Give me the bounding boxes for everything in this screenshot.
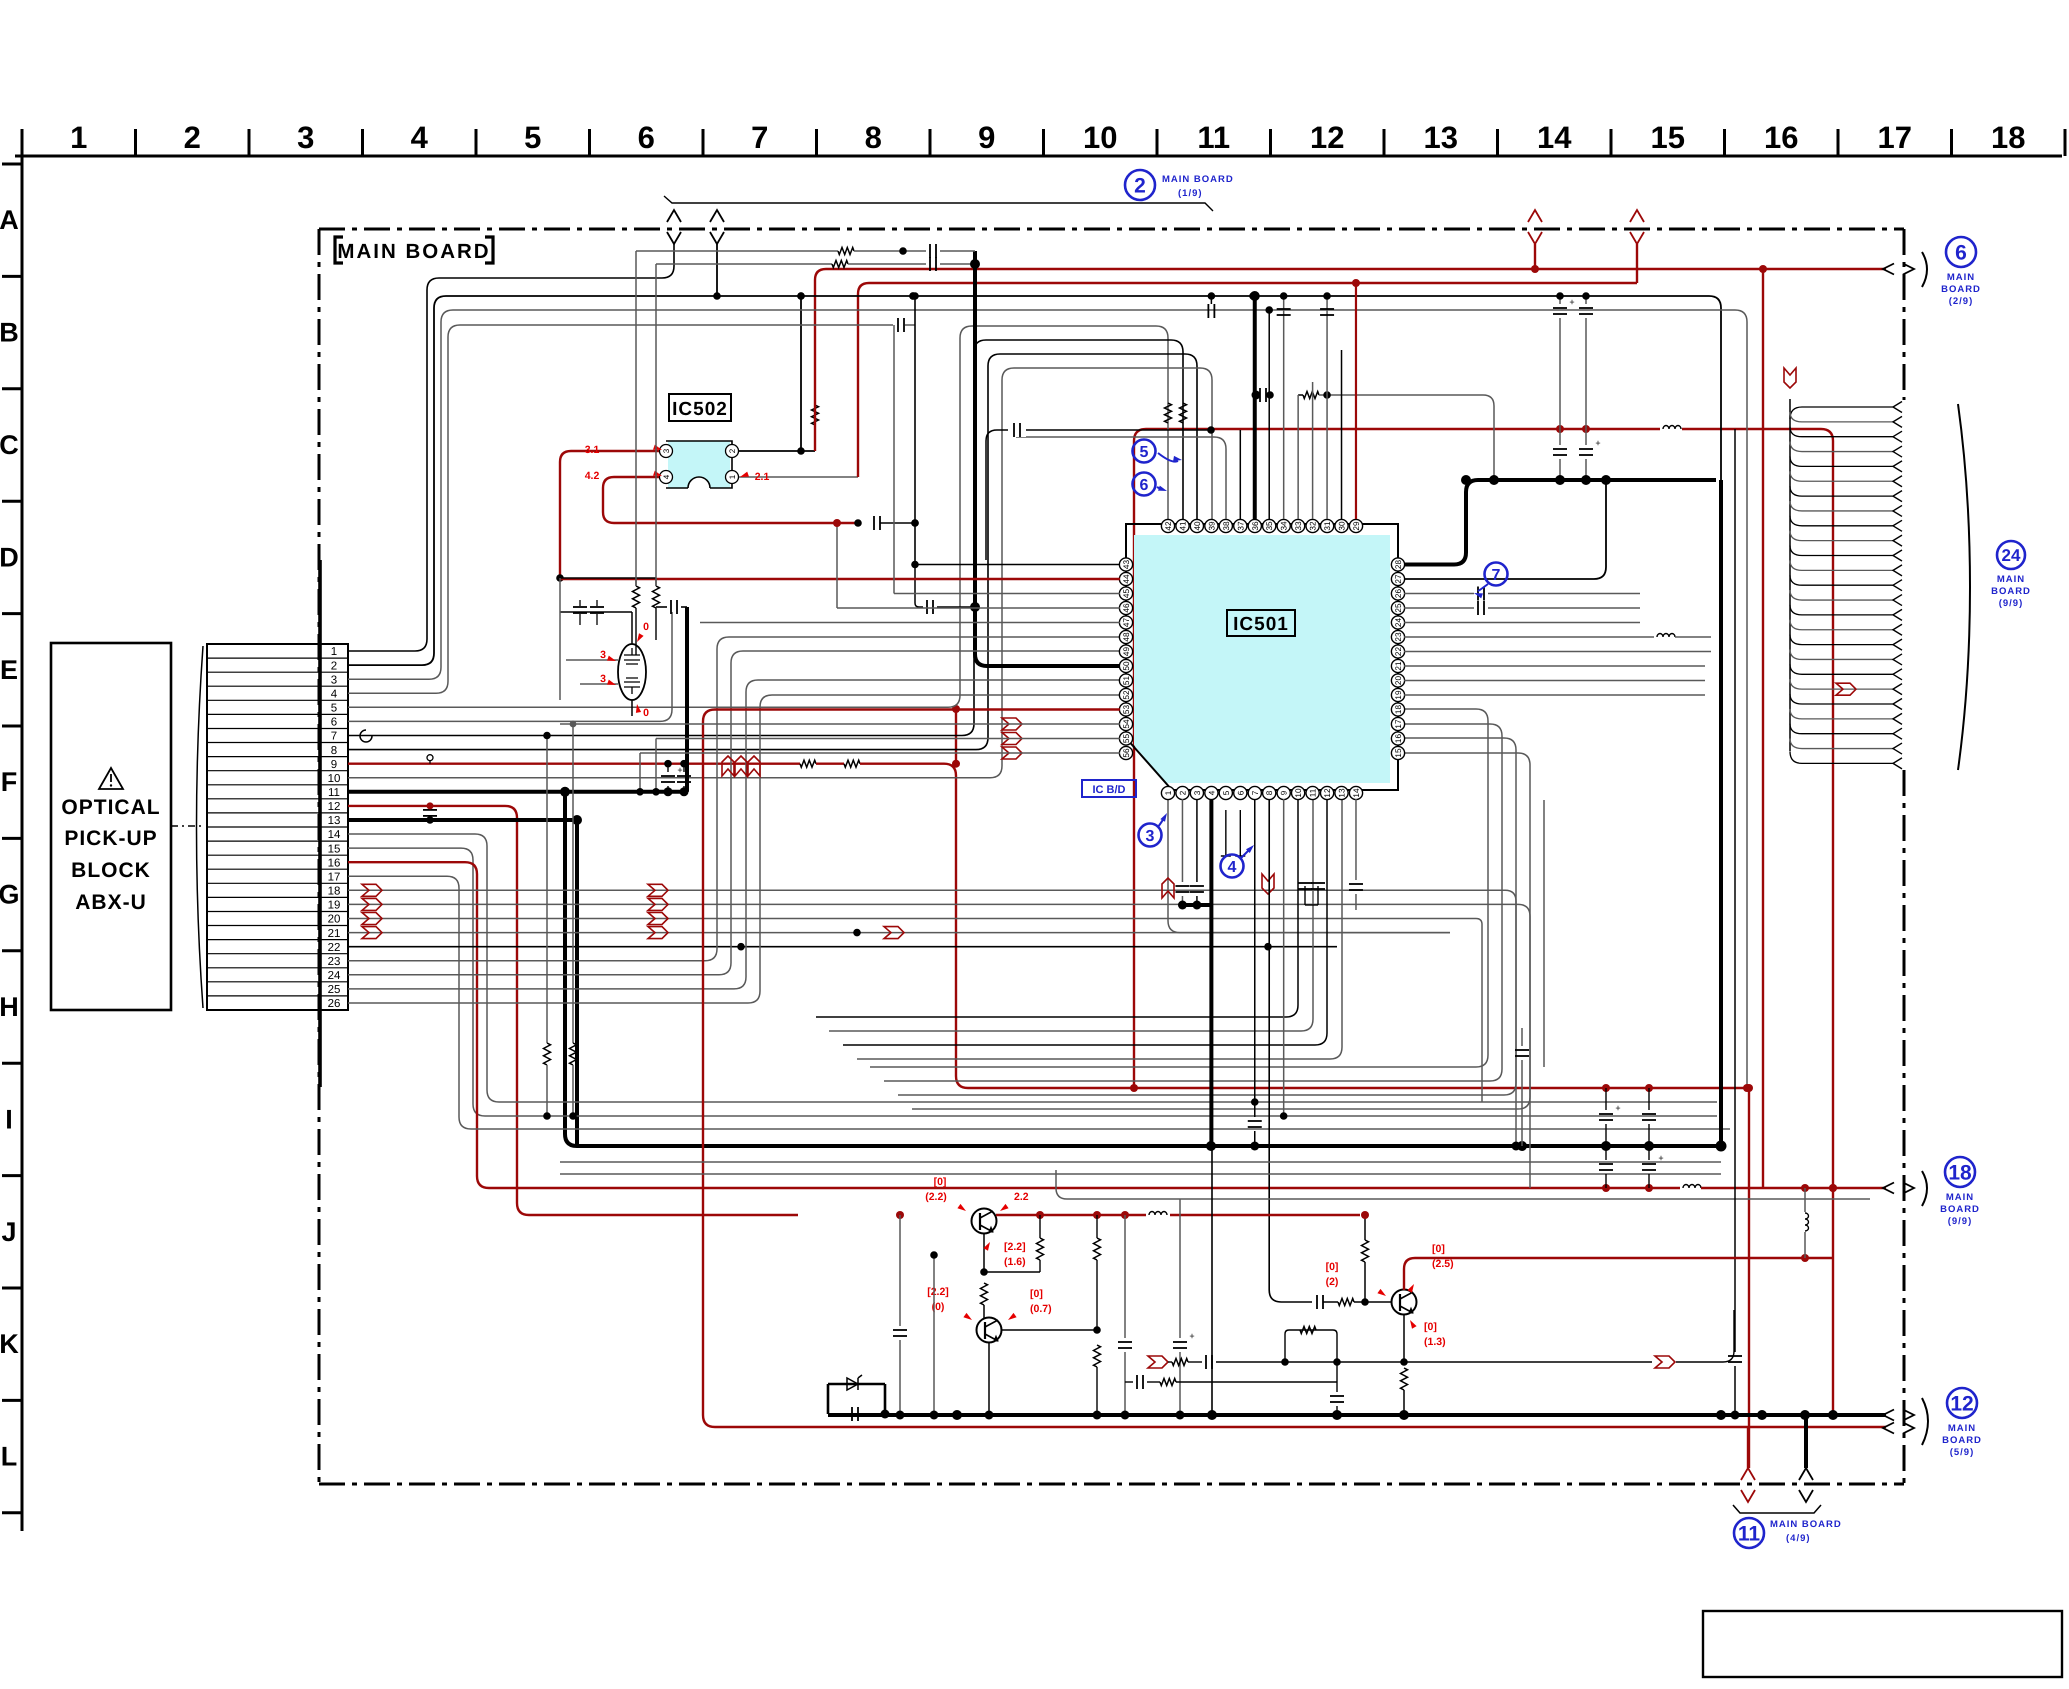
cap pair near fet (560, 578, 632, 700)
svg-text:MAIN: MAIN (1948, 1423, 1976, 1434)
wire pin24 loop to IC pin16 (348, 651, 1120, 975)
svg-text:13: 13 (1338, 788, 1347, 798)
svg-text:9: 9 (978, 120, 995, 155)
svg-text:3: 3 (297, 120, 314, 155)
resistor above IC502 pin2 (812, 405, 819, 451)
svg-text:24: 24 (1394, 618, 1403, 628)
svg-text:3: 3 (600, 649, 606, 661)
svg-text:5: 5 (1222, 790, 1231, 795)
wire IC pin54 (560, 721, 1120, 1120)
svg-text:F: F (1, 767, 18, 797)
svg-text:28: 28 (1394, 560, 1403, 570)
svg-text:2.1: 2.1 (755, 471, 770, 483)
svg-text:BOARD: BOARD (1942, 1435, 1982, 1446)
svg-text:25: 25 (1394, 603, 1403, 613)
svg-text:14: 14 (328, 829, 341, 841)
svg-text:11: 11 (1309, 788, 1318, 797)
svg-text:+: + (677, 765, 682, 775)
svg-text:MAIN BOARD: MAIN BOARD (1162, 174, 1234, 185)
svg-text:3: 3 (1193, 790, 1202, 795)
IC502 label (669, 394, 731, 421)
svg-text:15: 15 (328, 843, 341, 855)
wire IC pin53 red to bottom (703, 710, 1886, 1428)
svg-text:18: 18 (1394, 705, 1403, 715)
extra loop verticals right (1543, 800, 1545, 1067)
resistor pair near fet (560, 578, 660, 655)
svg-text:15: 15 (1394, 748, 1403, 758)
main board label (335, 237, 493, 263)
svg-text:37: 37 (1236, 521, 1245, 531)
svg-text:IC502: IC502 (672, 399, 728, 420)
svg-text:L: L (1, 1442, 18, 1472)
wire loop cap-col to IC pin12 (843, 800, 1327, 1045)
wire pin30 (1341, 350, 1343, 519)
svg-text:4: 4 (411, 120, 429, 155)
svg-text:6: 6 (1955, 242, 1967, 265)
transistor Q3 (1392, 1290, 1417, 1315)
wire IC pin5/6 caps (1221, 810, 1245, 856)
svg-text:47: 47 (1122, 618, 1131, 628)
wire pin22 (348, 943, 1337, 951)
wire pin19 (348, 898, 1470, 910)
Q3 collector red (1404, 1243, 1833, 1293)
resistor on pin42 line (1165, 403, 1172, 423)
svg-text:6: 6 (1140, 477, 1149, 494)
wire gray bus y1174 (560, 1173, 1721, 1175)
svg-text:7: 7 (1251, 790, 1260, 795)
svg-text:6: 6 (331, 717, 337, 729)
cap on pin14 wire (1349, 884, 1363, 910)
svg-text:24: 24 (328, 970, 341, 982)
wire IC pin19 (1404, 694, 1705, 696)
svg-text:8: 8 (331, 745, 337, 757)
capacitor between pin12/13 (423, 802, 437, 823)
red vertical bus 2 (1759, 265, 1767, 1188)
wire IC502 pin3 red (556, 451, 659, 582)
svg-text:IC B/D: IC B/D (1093, 784, 1126, 796)
chevron in fan (1836, 683, 1856, 695)
rc pair above fet (636, 244, 980, 586)
svg-text:17: 17 (328, 871, 341, 883)
svg-text:8: 8 (865, 120, 882, 155)
svg-text:OPTICAL: OPTICAL (61, 796, 160, 819)
svg-text:19: 19 (328, 900, 341, 912)
svg-text:IC501: IC501 (1233, 614, 1289, 635)
svg-text:2: 2 (184, 120, 201, 155)
svg-text:BLOCK: BLOCK (71, 859, 151, 882)
svg-text:27: 27 (1394, 574, 1403, 584)
cap to ground x900 (893, 1215, 907, 1420)
svg-text:PICK-UP: PICK-UP (64, 827, 157, 850)
wire IC502 pin4 red (603, 477, 862, 527)
svg-text:8: 8 (1265, 790, 1274, 795)
svg-text:ABX-U: ABX-U (75, 891, 147, 914)
svg-text:51: 51 (1122, 676, 1131, 686)
capacitor pair below pin9 line (661, 764, 691, 792)
wire IC pin7 down (1248, 799, 1262, 1151)
red annotation Q1 (925, 1176, 1029, 1211)
svg-text:4: 4 (1228, 859, 1237, 876)
svg-text:5: 5 (524, 120, 541, 155)
svg-text:15: 15 (1651, 120, 1685, 155)
svg-text:(1.3): (1.3) (1424, 1336, 1446, 1348)
svg-text:16: 16 (328, 857, 341, 869)
svg-text:40: 40 (1193, 521, 1202, 531)
svg-text:31: 31 (1323, 521, 1332, 531)
svg-text:6: 6 (638, 120, 655, 155)
wire pin34 (1277, 292, 1291, 519)
svg-text:42: 42 (1164, 521, 1173, 531)
svg-text:20: 20 (1394, 676, 1403, 686)
fan connector to main board 9/9 (1784, 368, 1902, 769)
optical pick-up block (51, 643, 171, 1010)
IC501 pins right col 28-15 (1391, 558, 1404, 760)
wire IC502 pin1 gray (739, 476, 858, 478)
wire IC pin2 down (1175, 799, 1189, 910)
svg-text:53: 53 (1122, 705, 1131, 715)
svg-text:9: 9 (331, 759, 337, 771)
wire IC pin22 (1404, 651, 1711, 653)
svg-text:7: 7 (1492, 567, 1501, 584)
K row filter line 2 (1125, 1362, 1344, 1415)
verticals from G rows (1470, 890, 1530, 1188)
svg-text:48: 48 (1122, 632, 1131, 642)
chevron near pin7 (1262, 874, 1274, 894)
wire pin21 (348, 927, 1450, 939)
svg-text:D: D (0, 542, 19, 572)
svg-text:49: 49 (1122, 647, 1131, 657)
marker 24 main board 9/9 (1991, 541, 2031, 609)
wire pin1 to board connector (348, 244, 674, 651)
Q3 emitter (1400, 1314, 1445, 1415)
svg-text:(0.7): (0.7) (1030, 1303, 1052, 1315)
IC501 pins left col 43-56 (1119, 558, 1132, 760)
wire IC pin21 (1404, 665, 1705, 667)
svg-text:+: + (1595, 438, 1600, 448)
vertical bus x1735 (1728, 429, 1742, 1420)
svg-text:55: 55 (1122, 734, 1131, 744)
svg-text:44: 44 (1122, 574, 1131, 584)
svg-text:E: E (0, 655, 18, 685)
diode D zener loop (828, 1375, 890, 1421)
svg-text:12: 12 (328, 801, 341, 813)
wire IC pin28 thick (1404, 475, 1721, 1146)
marker 4 (1221, 845, 1255, 878)
svg-text:11: 11 (1738, 1523, 1761, 1546)
svg-text:(1/9): (1/9) (1178, 188, 1203, 199)
wire IC pin20 (1404, 680, 1705, 682)
svg-text:12: 12 (1310, 120, 1344, 155)
wire pin36 thick (1250, 291, 1260, 519)
svg-text:41: 41 (1179, 521, 1188, 531)
svg-text:56: 56 (1122, 748, 1131, 758)
marker 7 (1474, 563, 1508, 599)
svg-text:B: B (0, 318, 19, 348)
svg-text:13: 13 (328, 815, 341, 827)
svg-text:29: 29 (1352, 521, 1361, 531)
svg-text:4.2: 4.2 (585, 470, 600, 482)
connector symbol to main board 1/9 (left pair) (667, 210, 724, 244)
connector CN 26pin (207, 560, 348, 1087)
wire IC pin56 (636, 753, 1120, 796)
svg-text:14: 14 (1537, 120, 1572, 155)
title block (1703, 1611, 2062, 1677)
svg-text:BOARD: BOARD (1941, 284, 1981, 295)
vertical 1522 cap (1515, 1028, 1529, 1146)
svg-text:(1.6): (1.6) (1004, 1256, 1026, 1268)
red wire vertical bus x1749 (1745, 1084, 1753, 1468)
svg-text:17: 17 (1394, 719, 1403, 729)
wire IC pin3 down (1190, 799, 1204, 910)
wire loop to IC pin16 (898, 738, 1516, 1095)
svg-text:(2/9): (2/9) (1949, 296, 1974, 307)
svg-text:16: 16 (1764, 120, 1798, 155)
cap to ground x934 (930, 1251, 939, 1419)
svg-text:[2.2]: [2.2] (927, 1286, 949, 1298)
wire pin38 stub (1016, 437, 1226, 519)
wire IC pin25 (1404, 601, 1640, 615)
wire pin25 loop to IC pin17 (348, 680, 1120, 989)
wire pin37 stub (1239, 430, 1241, 519)
svg-text:12: 12 (1323, 788, 1332, 798)
svg-text:18: 18 (328, 886, 341, 898)
wire IC pin4 thick down (1182, 799, 1211, 1146)
left ruler (0, 131, 22, 1531)
svg-text:54: 54 (1122, 719, 1131, 729)
dual FET Q501 (566, 612, 646, 716)
caps to supply rail right (1553, 292, 1601, 485)
resistor column x547 (543, 732, 551, 1120)
svg-text:14: 14 (1352, 788, 1361, 798)
svg-text:2: 2 (1134, 175, 1146, 198)
chevron right of filter (1655, 1356, 1675, 1368)
resistor above Q3 base (1361, 1211, 1369, 1302)
wire IC pin26 (1404, 587, 1640, 601)
red annotation 2.1 (740, 471, 769, 483)
svg-text:18: 18 (1991, 120, 2025, 155)
caps near pin3/4 (1298, 883, 1325, 905)
svg-text:A: A (0, 205, 19, 235)
wire pin3 rail (348, 310, 1747, 1086)
svg-text:30: 30 (1338, 521, 1347, 531)
svg-text:52: 52 (1122, 690, 1131, 700)
ground bus thick (828, 1410, 1886, 1420)
svg-text:(2): (2) (1326, 1276, 1339, 1288)
wire IC pin8 down to Q3 base (1269, 799, 1312, 1302)
wire pin20 (348, 913, 1470, 925)
svg-text:[0]: [0] (1326, 1261, 1339, 1273)
wire pin11 thick ground (348, 251, 1727, 1152)
svg-text:25: 25 (328, 984, 341, 996)
svg-text:1: 1 (331, 646, 337, 658)
wire pin26 loop to IC pin18 (348, 695, 1120, 1003)
wire pin10 (348, 368, 1212, 778)
coil on Q1 line (1146, 1208, 1170, 1222)
svg-text:+: + (1189, 1331, 1194, 1341)
marker 2 main board 1/9 (1125, 170, 1234, 200)
IC501 label (1227, 610, 1295, 636)
capacitor pin36-35 (1252, 388, 1274, 402)
cable bracket (197, 646, 204, 1008)
svg-text:46: 46 (1122, 603, 1131, 613)
svg-text:1: 1 (728, 474, 737, 479)
svg-text:38: 38 (1222, 521, 1231, 531)
wire loop cap-col to IC pin11 (829, 800, 1313, 1031)
chevrons up on loop verticals (722, 756, 760, 776)
marker 6b (1133, 473, 1168, 496)
svg-text:7: 7 (751, 120, 768, 155)
svg-text:+: + (1658, 1153, 1663, 1163)
svg-text:[0]: [0] (1030, 1288, 1043, 1300)
svg-text:1: 1 (70, 120, 87, 155)
svg-text:26: 26 (1394, 589, 1403, 599)
svg-text:26: 26 (328, 998, 341, 1010)
wire gray to 18 (1056, 1170, 1870, 1199)
wire pin2 supply rail (348, 244, 1721, 665)
wire pin7 (348, 340, 1183, 742)
caps to ground x1125 x1158 (1118, 1199, 1195, 1420)
wire loop cap-col to IC pin13 (857, 800, 1342, 1059)
red annotation fet 0 top (637, 621, 649, 642)
wire pin5 (348, 326, 1168, 707)
top ruler (15, 120, 2065, 156)
IC502 body (660, 441, 739, 488)
svg-text:22: 22 (1394, 647, 1403, 657)
wire pin8 (348, 354, 1197, 750)
K row filter line 1 (1148, 1327, 1365, 1370)
svg-text:50: 50 (1122, 661, 1131, 671)
svg-text:13: 13 (1424, 120, 1458, 155)
chevron pin21 extra (853, 800, 1450, 939)
IC501 pins bottom row 1-14 (1161, 786, 1362, 799)
red link pin53 to pin9 (952, 705, 960, 768)
resistor branch right of Q1 (984, 1215, 1044, 1272)
svg-text:10: 10 (1294, 788, 1303, 798)
wire loop to IC pin17 (884, 724, 1502, 1081)
svg-text:9: 9 (1280, 790, 1289, 795)
transistor Q1 (896, 1209, 1360, 1234)
wire pin17 (348, 876, 1730, 1129)
capacitor on pin4 line (874, 516, 919, 530)
svg-text:35: 35 (1265, 521, 1274, 531)
red annotation 3.1 (585, 444, 662, 456)
wire pin32 (1312, 382, 1314, 519)
svg-text:19: 19 (1394, 690, 1403, 700)
chevrons on pin54-56 wires (1002, 718, 1022, 759)
wire loop to IC pin18 (870, 709, 1488, 1067)
svg-text:0: 0 (643, 707, 649, 719)
bracket 24 (1958, 404, 1970, 770)
wire IC pin9 down (1280, 799, 1288, 1120)
svg-text:2: 2 (331, 660, 337, 672)
svg-text:7: 7 (331, 731, 337, 743)
red annotation fet 3b (600, 673, 616, 685)
wire pin14 (348, 834, 1717, 1102)
Q1 collector chain (980, 1233, 1025, 1318)
svg-text:3: 3 (331, 674, 337, 686)
connector to main board 2/9 (1883, 252, 1927, 287)
svg-text:(9/9): (9/9) (1948, 1216, 1973, 1227)
svg-text:3: 3 (1146, 828, 1155, 845)
svg-text:MAIN: MAIN (1946, 1192, 1974, 1203)
red supply wire B+ to marker 6 (815, 269, 1886, 451)
resistor on pin41 line (1180, 403, 1187, 423)
svg-text:6: 6 (1236, 790, 1245, 795)
svg-text:BOARD: BOARD (1991, 586, 2031, 597)
wire gray bus y1162 (560, 1161, 1721, 1163)
svg-text:(2.2): (2.2) (925, 1191, 947, 1203)
svg-text:3: 3 (600, 673, 606, 685)
wire pin35 (1265, 306, 1273, 519)
svg-text:24: 24 (2002, 546, 2021, 565)
wire IC pin43 (911, 292, 1120, 614)
svg-text:[0]: [0] (934, 1176, 947, 1188)
wire loop cap-col to IC pin10 (816, 800, 1298, 1017)
svg-text:MAIN BOARD: MAIN BOARD (337, 240, 490, 263)
wire IC pin46 (833, 519, 1120, 608)
red annotation fet 3 (600, 649, 616, 661)
wire pin31 (1320, 292, 1334, 519)
svg-text:MAIN: MAIN (1947, 272, 1975, 283)
caps between red bus and ground right (1599, 1088, 1664, 1188)
svg-text:H: H (0, 992, 19, 1022)
wire pin4 rail (348, 318, 915, 693)
connector symbol red (right pair) (1528, 210, 1644, 283)
svg-text:MAIN: MAIN (1997, 574, 2025, 585)
svg-text:G: G (0, 880, 20, 910)
wire y430 branch with capacitor (986, 423, 1215, 560)
filter line to right (1365, 1310, 1734, 1362)
svg-text:(4/9): (4/9) (1786, 1533, 1811, 1544)
svg-text:18: 18 (1948, 1162, 1972, 1185)
svg-text:4: 4 (662, 474, 671, 479)
marker 18 main board 9/9 (1883, 1157, 1980, 1227)
marker 11 main board 4/9 (1733, 1415, 1842, 1548)
svg-text:43: 43 (1122, 560, 1131, 570)
wire IC pin44 red (560, 578, 1120, 580)
wire pin9 red (348, 755, 1751, 1092)
svg-text:(5/9): (5/9) (1950, 1447, 1975, 1458)
svg-text:(9/9): (9/9) (1999, 598, 2024, 609)
red wire second supply (858, 283, 1637, 477)
svg-text:BOARD: BOARD (1940, 1204, 1980, 1215)
svg-text:[0]: [0] (1432, 1243, 1445, 1255)
wire loop to IC pin15 (912, 753, 1530, 1109)
svg-text:34: 34 (1280, 521, 1289, 531)
wire pin33 (1297, 395, 1299, 519)
svg-text:J: J (1, 1217, 16, 1247)
svg-text:39: 39 (1207, 521, 1216, 531)
wire IC pin14 down (1355, 799, 1357, 880)
svg-text:3: 3 (662, 448, 671, 453)
svg-text:11: 11 (328, 787, 340, 799)
resistor pin33-31 y395 (1298, 391, 1499, 485)
wire IC pin55 (652, 739, 1120, 796)
red supply loop y429 (1134, 425, 1838, 1420)
wire column to ground x1212 (1211, 1146, 1213, 1415)
svg-text:2: 2 (728, 448, 737, 453)
svg-text:4: 4 (331, 688, 338, 700)
wire pin15 (348, 848, 1717, 1116)
svg-text:21: 21 (328, 928, 341, 940)
svg-text:12: 12 (1950, 1393, 1973, 1416)
svg-text:MAIN BOARD: MAIN BOARD (1770, 1519, 1842, 1530)
wire pin12 red (348, 806, 798, 1215)
svg-text:33: 33 (1294, 521, 1303, 531)
svg-text:22: 22 (328, 942, 341, 954)
wire IC pin45 (894, 325, 1120, 594)
wire IC502 pin2 (739, 292, 815, 455)
